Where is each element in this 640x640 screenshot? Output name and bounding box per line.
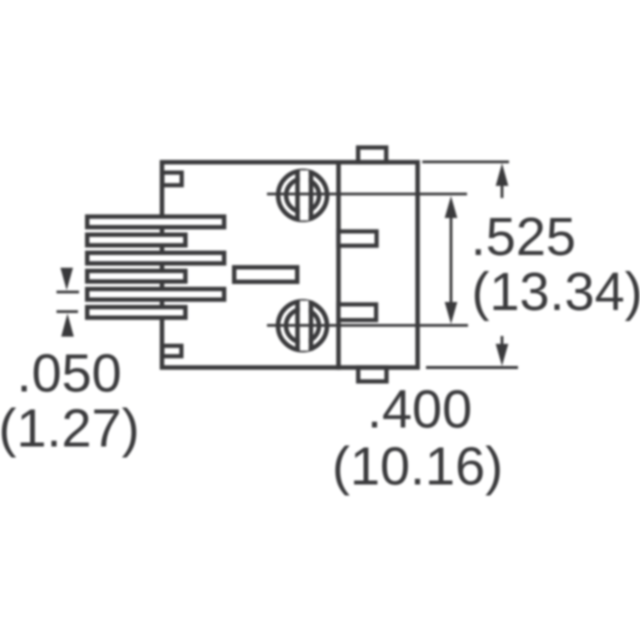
bottom mounting tab bbox=[358, 368, 386, 382]
centerline screw 2 bbox=[267, 324, 468, 327]
center adjustment slot bbox=[234, 267, 297, 282]
screw 2 slot lines bbox=[295, 301, 300, 351]
bottom-left notch bbox=[162, 346, 181, 356]
screw 1 slot erase bbox=[300, 170, 309, 220]
svg-text:.400: .400 bbox=[367, 380, 472, 440]
screw 1 outer circle bbox=[278, 171, 327, 220]
svg-text:.525: .525 bbox=[471, 207, 576, 267]
outer dimension bottom arrow bbox=[496, 344, 509, 366]
screw 1 slot lines bbox=[295, 170, 300, 220]
inner dimension shaft bbox=[450, 214, 453, 306]
screw 2 outer circle bbox=[278, 301, 327, 350]
outer dimension top shaft bbox=[501, 184, 504, 198]
pitch dimension down arrow bbox=[60, 268, 73, 291]
pin 1 bbox=[87, 217, 224, 228]
pitch dimension tick 2 bbox=[57, 310, 79, 313]
screw 2 slot erase bbox=[300, 301, 309, 351]
top mounting tab bbox=[358, 148, 386, 163]
right-section slot A bbox=[339, 231, 377, 245]
inner dimension top arrow bbox=[445, 196, 458, 218]
svg-text:(10.16): (10.16) bbox=[332, 437, 503, 497]
inner dimension bottom arrow bbox=[445, 302, 458, 324]
pin 3 bbox=[87, 253, 224, 264]
pitch dimension up arrow bbox=[61, 314, 74, 337]
pitch dimension tick 1 bbox=[57, 291, 80, 294]
right-section slot B bbox=[339, 304, 377, 320]
pin 5 bbox=[87, 289, 224, 300]
top extension line bbox=[422, 161, 509, 164]
screw 1 inner circle bbox=[286, 179, 319, 212]
pin 6 bbox=[87, 307, 185, 318]
svg-text:(13.34): (13.34) bbox=[472, 262, 640, 322]
body outline bbox=[162, 162, 418, 367]
outer dimension bottom shaft bbox=[501, 336, 504, 345]
bottom extension line bbox=[426, 366, 518, 369]
screw 2 inner circle bbox=[286, 309, 319, 342]
centerline screw 1 bbox=[267, 193, 467, 196]
outer dimension top arrow bbox=[496, 163, 509, 186]
svg-text:.050: .050 bbox=[17, 344, 122, 404]
pin 4 bbox=[87, 271, 185, 282]
pin 2 bbox=[87, 235, 185, 246]
top-left notch bbox=[162, 173, 181, 186]
svg-text:(1.27): (1.27) bbox=[0, 399, 140, 459]
internal divider wall bbox=[336, 160, 341, 370]
